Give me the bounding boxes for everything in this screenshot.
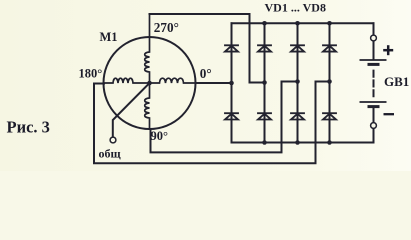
battery GB1 cells <box>360 60 387 107</box>
svg-text:180°: 180° <box>79 67 103 81</box>
diode VD col4 bottom <box>323 113 336 119</box>
junction dots <box>147 21 332 145</box>
node top bus col4 <box>327 21 332 26</box>
common terminal circle <box>110 137 116 143</box>
winding L-top (270°) with lead to top route <box>145 14 150 83</box>
battery terminal circle bottom <box>371 123 377 129</box>
diodes VD1..VD8 : triangle up with cathode bar on top <box>225 45 336 119</box>
diode VD col3 top <box>291 45 304 51</box>
cell 1 long plate <box>360 59 387 61</box>
node mid col1 <box>229 81 234 86</box>
node top bus col2 <box>262 21 267 26</box>
svg-text:Рис. 3: Рис. 3 <box>7 118 50 137</box>
wire: 90° route to column 3 <box>151 82 298 153</box>
cell 1 short thick plate <box>368 63 380 66</box>
svg-text:90°: 90° <box>151 129 169 143</box>
diode column 4 vertical <box>329 23 331 142</box>
svg-text:М1: М1 <box>100 30 118 44</box>
battery wire cell-to-circle <box>373 108 375 123</box>
winding L-right (0°) <box>150 78 196 83</box>
node mid col4 <box>327 79 332 84</box>
node mid col3 <box>295 79 300 84</box>
battery dashed link <box>373 71 375 97</box>
diode VD col2 bottom <box>258 113 271 119</box>
winding L-bottom (90°) with lead to circle bottom <box>145 83 150 129</box>
node mid col2 <box>262 80 267 85</box>
node top bus col3 <box>295 21 300 26</box>
battery top lead <box>373 23 375 35</box>
wire: 180° route to column 4 <box>94 82 330 164</box>
diode VD col4 top <box>323 45 336 51</box>
winding L-left (180°) <box>104 78 150 83</box>
svg-text:общ: общ <box>99 146 122 160</box>
diode VD col3 bottom <box>291 113 304 119</box>
bottom anode bus <box>232 142 374 144</box>
node: motor centre <box>147 81 152 86</box>
motor M1 body circle <box>104 37 196 129</box>
svg-text:0°: 0° <box>200 66 212 81</box>
diode VD col1 bottom <box>225 113 238 119</box>
diode column 1 vertical <box>231 23 233 142</box>
svg-text:270°: 270° <box>154 20 179 35</box>
wire: 270° route (top) <box>150 14 265 83</box>
diode VD col1 top <box>225 45 238 51</box>
plus sign <box>383 45 393 55</box>
svg-text:VD1 ... VD8: VD1 ... VD8 <box>265 1 326 15</box>
diode column 2 vertical <box>264 23 266 142</box>
diode column 3 vertical <box>297 23 299 142</box>
svg-text:GB1: GB1 <box>384 74 409 89</box>
cell 2 long plate <box>360 101 387 103</box>
node bottom bus col4 <box>327 140 332 145</box>
battery wire circle-to-cell <box>373 42 375 59</box>
rotor common arm <box>113 83 150 137</box>
node bottom bus col2 <box>262 140 267 145</box>
node bottom bus col3 <box>295 140 300 145</box>
battery bottom lead <box>373 129 375 143</box>
battery terminal circle top <box>371 35 377 41</box>
minus sign <box>384 113 395 115</box>
top cathode bus <box>232 22 374 24</box>
diode VD col2 top <box>258 45 271 51</box>
wire: 0° route to column 1 <box>196 82 232 84</box>
cell 2 short thick plate <box>368 105 380 108</box>
